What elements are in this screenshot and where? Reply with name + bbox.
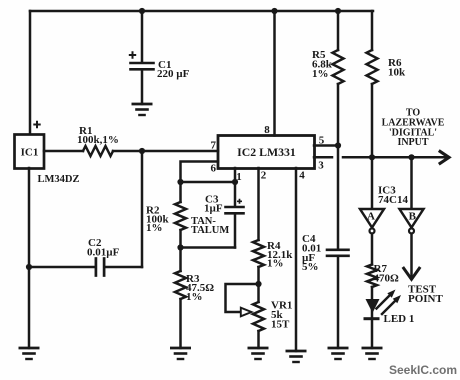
svg-text:5%: 5%: [302, 261, 319, 273]
svg-text:220 µF: 220 µF: [157, 68, 190, 80]
svg-text:1%: 1%: [186, 291, 203, 303]
svg-text:7: 7: [211, 140, 217, 152]
svg-text:10k: 10k: [388, 67, 406, 79]
svg-text:15T: 15T: [271, 319, 290, 331]
svg-text:LM34DZ: LM34DZ: [38, 174, 80, 185]
svg-text:B: B: [409, 211, 417, 223]
svg-text:1µF: 1µF: [204, 203, 223, 215]
svg-text:0.01µF: 0.01µF: [87, 247, 120, 259]
svg-text:POINT: POINT: [408, 293, 444, 305]
svg-text:74C14: 74C14: [378, 194, 408, 206]
svg-text:IC2 LM331: IC2 LM331: [237, 145, 296, 159]
svg-text:LED 1: LED 1: [384, 313, 415, 325]
svg-text:470Ω: 470Ω: [374, 273, 400, 285]
svg-text:100k,1%: 100k,1%: [77, 134, 119, 146]
svg-text:2: 2: [261, 170, 267, 182]
svg-text:3: 3: [318, 160, 324, 172]
svg-text:1%: 1%: [146, 222, 163, 234]
svg-text:5: 5: [319, 135, 325, 147]
svg-text:A: A: [367, 211, 375, 223]
svg-text:1%: 1%: [312, 68, 329, 80]
svg-text:4: 4: [299, 170, 305, 182]
svg-text:INPUT: INPUT: [397, 137, 428, 148]
svg-text:1: 1: [236, 171, 242, 183]
svg-text:IC1: IC1: [21, 147, 39, 159]
svg-text:1%: 1%: [267, 258, 284, 270]
svg-text:6: 6: [211, 163, 217, 175]
svg-text:SeekIC.com: SeekIC.com: [389, 363, 457, 377]
svg-text:8: 8: [264, 124, 270, 136]
svg-text:TALUM: TALUM: [191, 225, 229, 236]
